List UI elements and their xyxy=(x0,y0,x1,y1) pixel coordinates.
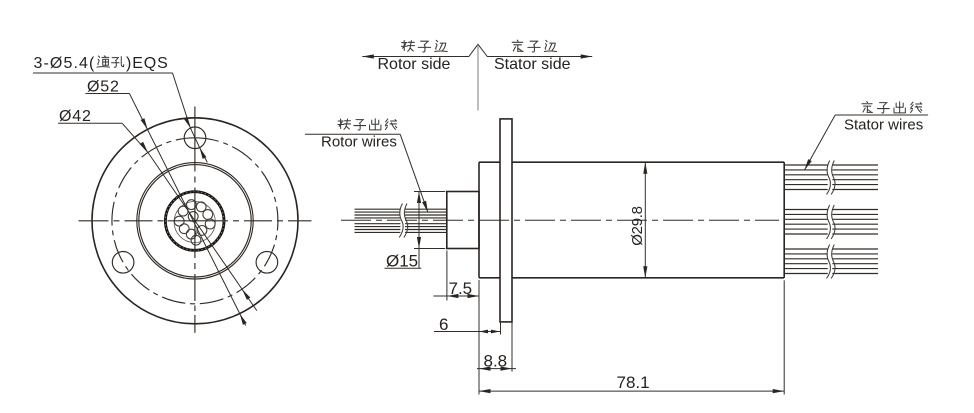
stator wires bottom bundle xyxy=(784,249,878,274)
dimension 8.8 xyxy=(511,322,513,372)
bolt hole lower-left xyxy=(112,251,134,273)
flange outer circle Ø52 xyxy=(92,118,298,324)
dimension Ø52 leader/line xyxy=(86,93,130,95)
dimension Ø42 leader/line xyxy=(58,122,122,124)
bolt hole top xyxy=(184,127,206,149)
wire bundle envelope xyxy=(174,201,215,242)
dimension 6 xyxy=(500,322,502,335)
dimension 78.1 xyxy=(478,280,480,395)
svg-text:Ø42: Ø42 xyxy=(59,108,92,125)
svg-text:7.5: 7.5 xyxy=(449,279,473,298)
stator wires break middle xyxy=(828,205,833,239)
label 转子边 xyxy=(401,40,414,51)
label 定子出线 / Stator wires with leader xyxy=(862,102,873,113)
side centerline xyxy=(341,219,779,221)
rotor hub cylinder xyxy=(447,192,479,249)
bolt hole lower-right xyxy=(256,251,278,273)
svg-text:Ø29.8: Ø29.8 xyxy=(629,206,646,245)
horizontal centerline xyxy=(79,220,312,222)
svg-text:3-Ø5.4(: 3-Ø5.4( xyxy=(34,55,96,72)
svg-text:8.8: 8.8 xyxy=(484,352,508,371)
divider line (gray) xyxy=(477,45,479,111)
svg-text:Ø15: Ø15 xyxy=(386,252,418,271)
dimension Ø15 xyxy=(414,191,445,193)
label 转子出线 / Rotor wires with leader xyxy=(338,119,351,129)
svg-text:Rotor side: Rotor side xyxy=(378,56,451,73)
rotor wires (left bundle) xyxy=(355,209,447,232)
svg-text:)EQS: )EQS xyxy=(126,55,169,72)
barrel front circle (double circle) xyxy=(137,163,253,279)
barrel (stator body) xyxy=(479,161,500,163)
rotor side arrow line xyxy=(362,44,592,56)
rotor wire break xyxy=(400,202,405,239)
svg-text:Ø52: Ø52 xyxy=(87,79,120,96)
svg-text:78.1: 78.1 xyxy=(617,373,650,392)
svg-text:6: 6 xyxy=(439,315,448,334)
dimension Ø29.8 xyxy=(644,162,646,278)
dimension 7.5 xyxy=(446,251,448,301)
svg-text:Rotor wires: Rotor wires xyxy=(321,134,397,151)
wire circles xyxy=(174,200,215,245)
svg-text:Stator wires: Stator wires xyxy=(844,117,923,134)
stator wires break top xyxy=(828,160,833,194)
vertical centerline xyxy=(194,107,196,333)
label 定子边 xyxy=(512,40,523,51)
svg-text:Stator side: Stator side xyxy=(494,56,571,73)
stator wires middle bundle xyxy=(784,210,878,235)
dimension 3-Ø5.4 leader/line xyxy=(33,72,173,74)
hub dark ring Ø15 xyxy=(165,192,224,251)
stator wires break bottom xyxy=(828,244,833,278)
bolt circle Ø42 (dash-dot) xyxy=(112,138,278,304)
flange plate xyxy=(500,119,512,322)
stator wires top bundle xyxy=(784,165,878,190)
